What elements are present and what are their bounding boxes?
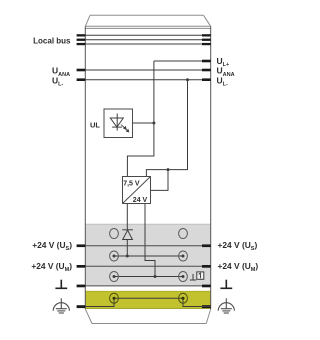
terminal circle row2 left bbox=[110, 272, 119, 282]
wire row3 to right edge bbox=[183, 298, 211, 306]
module body left edge bbox=[84, 26, 86, 309]
node A junction dot bbox=[152, 122, 155, 125]
svg-text:24 V: 24 V bbox=[133, 197, 148, 204]
right tick +24V US bbox=[202, 244, 211, 247]
local bus line 2 bbox=[85, 39, 210, 41]
terminal strip gray band bbox=[85, 224, 210, 286]
wire converter left output down bbox=[126, 204, 128, 230]
FE note symbol with box 1 bbox=[190, 272, 204, 280]
wire node B to converter right bbox=[151, 170, 169, 191]
right tick U_L- bbox=[202, 78, 211, 81]
local bus line 3 bbox=[85, 43, 210, 45]
left tick PE bbox=[77, 305, 86, 308]
net U_ANA wire bbox=[85, 69, 210, 71]
svg-text:UL: UL bbox=[90, 121, 100, 130]
op LED indicator box UL bbox=[104, 109, 133, 138]
module body right edge bbox=[210, 26, 212, 309]
left tick +24V UM bbox=[77, 265, 86, 268]
wire diode to row1 bbox=[126, 240, 128, 257]
right tick FE bbox=[202, 285, 211, 288]
ground PE symbol right bbox=[218, 298, 234, 313]
right tick U_L+ bbox=[202, 60, 211, 63]
svg-text:7,5 V: 7,5 V bbox=[123, 181, 140, 188]
module body bottom 3D face bbox=[85, 309, 210, 324]
FE yellow band bbox=[85, 291, 210, 309]
junction dot diode/row1 bbox=[126, 255, 129, 258]
right tick PE bbox=[202, 305, 211, 308]
net U_L- wire bbox=[85, 79, 210, 81]
rail +24V US separator bbox=[85, 245, 210, 247]
LED D1 symbol bbox=[110, 114, 123, 131]
terminal circle row0 left (empty) bbox=[110, 229, 119, 239]
left tick FE bbox=[77, 285, 86, 288]
right tick U_ANA bbox=[202, 69, 211, 72]
local bus left ticks bbox=[77, 34, 86, 45]
wire UL box to node A bbox=[133, 122, 154, 124]
svg-text:Local bus: Local bus bbox=[33, 36, 71, 45]
svg-text:+24 V (US): +24 V (US) bbox=[218, 240, 258, 252]
wire row3 FE bbox=[114, 297, 183, 299]
wire U_L+ drop (line A) bbox=[127, 61, 153, 177]
wire row3 to left edge bbox=[85, 298, 114, 306]
node B junction dot bbox=[167, 168, 170, 171]
local bus line 1 bbox=[85, 34, 210, 36]
ground FE symbol right bbox=[220, 280, 232, 289]
converter diagonal bbox=[123, 177, 151, 204]
left tick U_L- bbox=[77, 78, 86, 81]
terminal circle row2 right bbox=[179, 272, 188, 282]
left tick U_ANA bbox=[77, 69, 86, 72]
terminal circle row0 right (empty) bbox=[179, 229, 188, 239]
svg-text:+24 V (US): +24 V (US) bbox=[32, 240, 72, 252]
junction dot converter/row2 bbox=[154, 275, 157, 278]
LED emission arrows bbox=[121, 125, 129, 132]
terminal circle row3 right bbox=[179, 293, 188, 303]
net U_L+ wire bbox=[154, 60, 211, 62]
label 1 bbox=[199, 273, 201, 278]
rail FE separator bbox=[85, 285, 210, 287]
left tick +24V US bbox=[77, 244, 86, 247]
ground FE symbol left bbox=[55, 280, 67, 289]
wire row1 bbox=[114, 255, 183, 257]
local bus right ticks bbox=[202, 34, 211, 45]
svg-text:+24 V (UM): +24 V (UM) bbox=[218, 261, 259, 273]
ground PE symbol left bbox=[53, 298, 69, 313]
right tick +24V UM bbox=[202, 265, 211, 268]
wire U_L- drop (line B) bbox=[146, 80, 187, 177]
node on U_L- wire bbox=[186, 78, 189, 81]
wire converter right output down with jog bbox=[145, 204, 155, 277]
diode D2 (reverse protection) bbox=[122, 230, 133, 240]
converter U2 7.5V/24V box bbox=[123, 177, 151, 204]
terminal circle row1 left bbox=[110, 251, 119, 261]
terminal circle row1 right bbox=[179, 251, 188, 261]
svg-text:+24 V (UM): +24 V (UM) bbox=[31, 261, 72, 273]
rail +24V UM separator bbox=[85, 265, 210, 267]
terminal circle row3 left bbox=[110, 293, 119, 303]
module body top 3D lid bbox=[85, 15, 210, 28]
wire row2 bbox=[114, 276, 183, 278]
